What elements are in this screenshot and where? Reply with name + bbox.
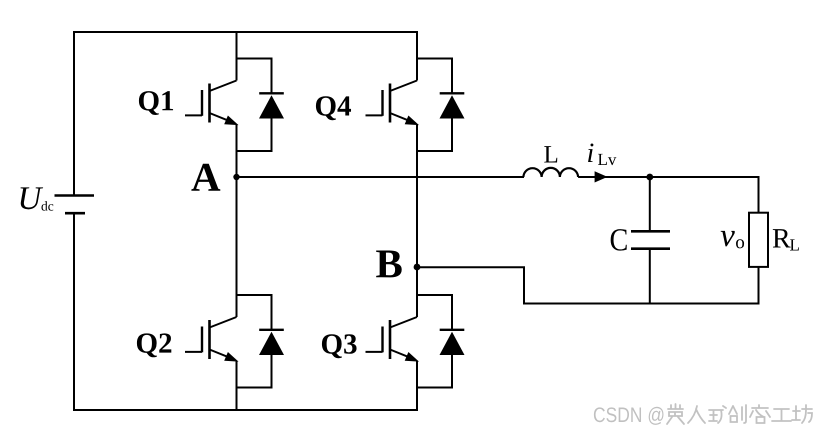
label U_dc (21, 187, 44, 209)
wire left column top (73, 31, 75, 195)
label Q3 (322, 334, 357, 358)
label vo (721, 231, 735, 246)
label C (611, 229, 627, 251)
wire node to RL top (758, 176, 760, 213)
current arrow i_Lv (595, 171, 608, 182)
transistor Q4 (366, 81, 420, 126)
diode D3 (417, 295, 465, 388)
label Q4 (316, 96, 351, 120)
resistor RL (749, 213, 768, 267)
wire node B to bottom rail (417, 267, 524, 303)
node B (414, 264, 421, 271)
label Q1 (139, 91, 173, 115)
wire capacitor top lead (649, 177, 651, 230)
label B (376, 250, 402, 277)
node A (233, 174, 239, 180)
wire leg2 bottom (416, 361, 418, 412)
wire inductor to node (578, 176, 758, 178)
wire bottom rail (74, 409, 417, 411)
diode D4 (417, 59, 465, 152)
wire leg1 middle (236, 124, 238, 317)
wire top rail (74, 31, 417, 33)
wire bottom right rail (523, 303, 760, 305)
label Q2 (137, 333, 171, 357)
inductor L (523, 168, 578, 177)
wire node A to inductor (237, 176, 525, 178)
wire leg1 top (236, 31, 238, 81)
transistor Q2 (185, 317, 239, 362)
wire leg1 bottom (236, 361, 238, 412)
transistor Q3 (366, 317, 420, 362)
wire leg2 middle (416, 124, 418, 317)
label RL (773, 229, 791, 247)
diode D2 (237, 295, 285, 388)
node output junction (646, 174, 653, 181)
capacitor C (631, 231, 670, 248)
wire leg2 top (416, 31, 418, 81)
diode D1 (237, 59, 285, 152)
label A (191, 164, 220, 191)
transistor Q1 (185, 81, 239, 126)
wire RL bottom lead (758, 267, 760, 304)
label L (544, 146, 557, 162)
wire capacitor bottom lead (649, 250, 651, 304)
battery U_dc (55, 196, 95, 214)
watermark (594, 404, 812, 425)
wire left column bottom (73, 213, 75, 411)
label i_Lv (588, 143, 593, 162)
